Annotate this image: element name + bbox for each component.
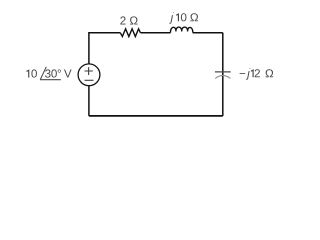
plus sign inside source — [85, 67, 93, 75]
capacitor C straight plate — [215, 71, 231, 73]
label 2 ohm : digit 2 — [120, 16, 125, 24]
capacitor C curved plate — [215, 76, 230, 79]
wire between resistor and inductor — [140, 32, 170, 34]
angle symbol slash — [40, 67, 46, 80]
wire top-right segment — [193, 32, 223, 34]
label -j12 ohm : omega — [265, 69, 273, 77]
label -j12 ohm : digit 2 — [255, 69, 260, 77]
inductor L j10ohm humps — [170, 27, 192, 33]
angle symbol underline — [40, 79, 61, 81]
label 2 ohm : omega — [130, 16, 138, 24]
label j10 ohm : digit 1 — [176, 13, 179, 21]
minus sign inside source — [85, 79, 94, 81]
label 10 angle 30 V : V — [64, 70, 72, 78]
label j10 ohm : italic j — [169, 12, 174, 24]
label 10 angle 30 V : digit 3 — [45, 69, 51, 77]
label -j12 ohm : minus — [240, 72, 246, 75]
resistor R 2ohm zigzag — [120, 29, 140, 37]
label j10 ohm : digit 0 — [181, 13, 187, 21]
label 10 angle 30 V : digit 0 of 30 — [51, 69, 57, 77]
label -j12 ohm : digit 1 — [251, 69, 254, 77]
label 10 angle 30 V : digit 0 — [31, 69, 37, 77]
label 10 angle 30 V : digit 1 — [26, 69, 29, 77]
voltage source V1 circle — [78, 64, 100, 86]
wire bottom — [89, 115, 223, 117]
wire right vertical — [222, 33, 224, 116]
wire top-left corner segment — [89, 33, 120, 64]
label j10 ohm : omega — [190, 13, 198, 21]
wire left lower stub — [88, 85, 90, 116]
label 10 angle 30 V : degree — [58, 69, 61, 72]
label -j12 ohm : italic j — [246, 68, 251, 80]
